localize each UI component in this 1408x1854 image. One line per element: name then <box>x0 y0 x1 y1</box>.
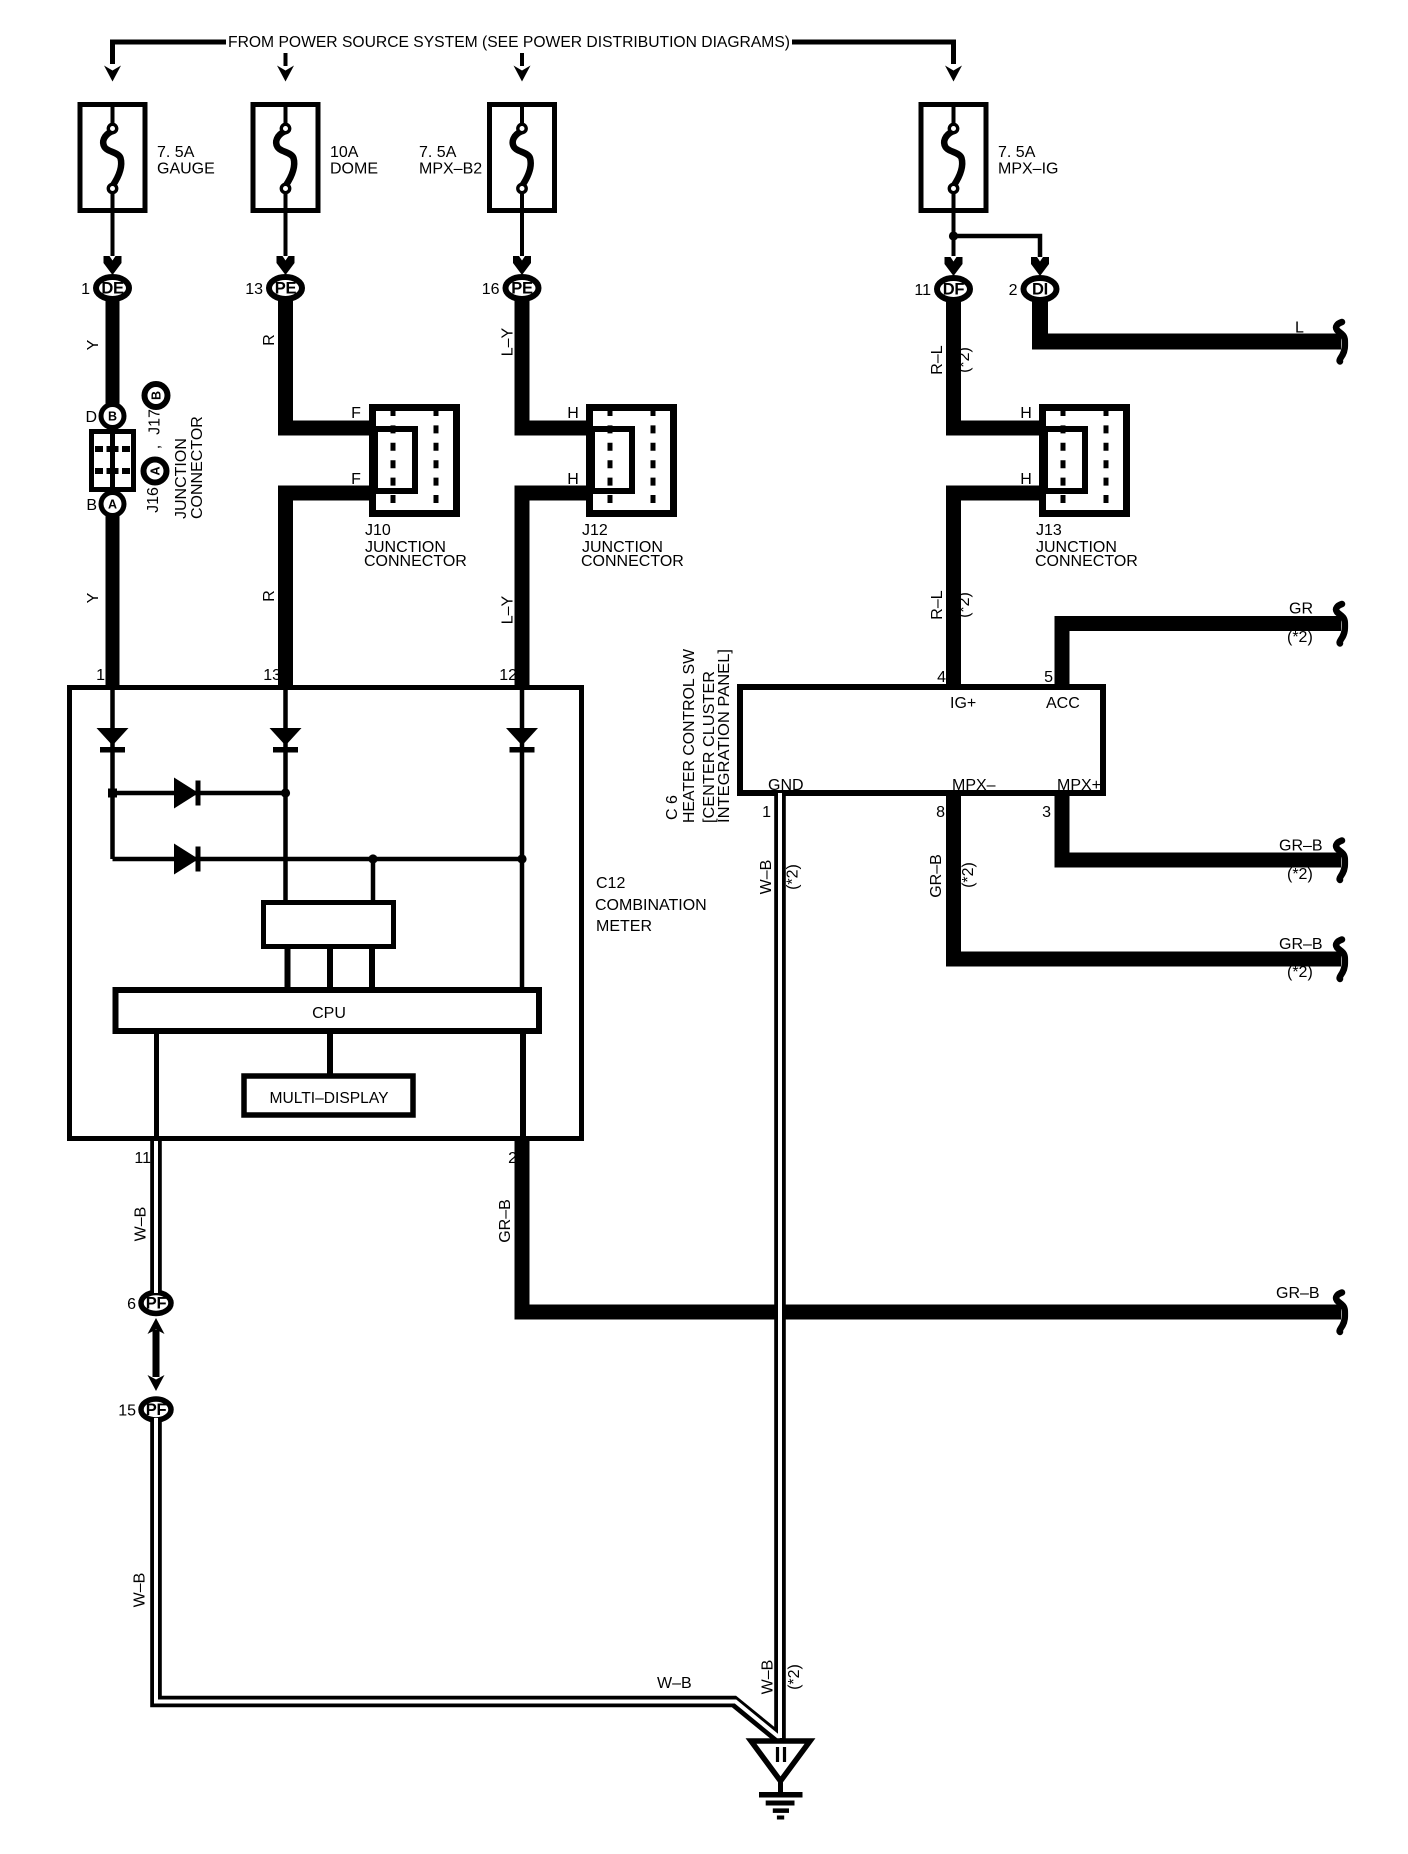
white core of W-B ground run <box>156 1418 780 1738</box>
svg-text:7. 5A: 7. 5A <box>157 144 195 161</box>
off-page continuation hook (GR) <box>1336 604 1345 644</box>
node row1/col1 <box>108 789 117 798</box>
svg-text:DOME: DOME <box>330 161 378 178</box>
wire R-L from J13 to C6 pin 4 (IG+) <box>954 493 1041 685</box>
wire label GR-B (*2) MPX- <box>1279 936 1323 981</box>
svg-text:J17: J17 <box>147 409 164 435</box>
svg-text:IG+: IG+ <box>950 695 976 712</box>
connector 2 DI (instrument panel) <box>1009 257 1057 300</box>
svg-text:DE: DE <box>101 280 124 298</box>
svg-text:6: 6 <box>127 1296 136 1313</box>
svg-text:15: 15 <box>118 1403 136 1420</box>
arrow into fuse F1 <box>104 66 121 82</box>
svg-text:PF: PF <box>146 1295 167 1313</box>
svg-text:J10: J10 <box>365 522 391 539</box>
svg-text:DI: DI <box>1032 281 1048 299</box>
svg-text:JUNCTION: JUNCTION <box>173 438 190 519</box>
wire Y from J16 to C12 pin 1 <box>106 516 120 685</box>
svg-text:(*2): (*2) <box>1287 866 1313 883</box>
connector 15 PF (on W-B) <box>118 1399 171 1420</box>
svg-text:MPX–B2: MPX–B2 <box>419 161 482 178</box>
power feed line from power source system <box>113 42 954 64</box>
svg-text:7. 5A: 7. 5A <box>998 144 1036 161</box>
connector 1 DE (instrument panel) <box>81 256 129 299</box>
svg-text:GR–B: GR–B <box>1279 936 1323 953</box>
svg-text:W–B: W–B <box>132 1573 149 1608</box>
svg-text:B: B <box>108 410 117 424</box>
power source label <box>226 31 792 53</box>
internal wire from pin 12 <box>520 688 525 988</box>
white core of W-B pin 11 wire <box>154 1141 158 1293</box>
svg-text:A: A <box>149 466 163 475</box>
svg-text:J12: J12 <box>582 522 608 539</box>
connector 13 PE (instrument panel) <box>245 256 302 299</box>
connector 6 PF (on W-B) <box>127 1293 171 1314</box>
svg-text:10A: 10A <box>330 144 359 161</box>
combination meter C12 box <box>70 688 582 1139</box>
svg-text:W–B: W–B <box>133 1207 150 1242</box>
J17 circled B legend <box>145 384 168 407</box>
svg-text:H: H <box>1020 471 1032 488</box>
wire R from J10 to C12 pin 13 <box>286 493 371 685</box>
svg-text:1: 1 <box>762 804 771 821</box>
svg-text:3: 3 <box>1042 804 1051 821</box>
svg-text:GND: GND <box>768 777 804 794</box>
connector 11 DF (instrument panel) <box>914 257 970 300</box>
fuse F1 7.5A GAUGE <box>80 104 145 256</box>
diode D1 (cathode down) <box>97 728 129 753</box>
svg-text:J16: J16 <box>145 487 162 513</box>
C12 label <box>595 875 707 935</box>
wire Y from DE to J16 <box>106 300 120 405</box>
svg-text:W–B: W–B <box>657 1675 692 1692</box>
svg-text:CONNECTOR: CONNECTOR <box>364 553 467 570</box>
svg-text:16: 16 <box>482 281 500 298</box>
wire from row2 node to interface box <box>371 859 376 900</box>
wire W-B from PF(15) to ground run <box>156 1420 780 1739</box>
svg-text:MULTI–DISPLAY: MULTI–DISPLAY <box>270 1090 389 1107</box>
off-page continuation hook (L) <box>1336 322 1345 362</box>
svg-text:H: H <box>567 471 579 488</box>
svg-text:L–Y: L–Y <box>500 595 517 624</box>
CPU box <box>116 990 540 1031</box>
svg-text:,: , <box>147 445 164 449</box>
svg-text:L: L <box>1295 320 1304 337</box>
svg-text:R–L: R–L <box>929 345 946 374</box>
mating arrows between PF connectors <box>148 1318 165 1391</box>
svg-text:COMBINATION: COMBINATION <box>595 897 707 914</box>
svg-text:H: H <box>1020 405 1032 422</box>
svg-text:HEATER CONTROL SW: HEATER CONTROL SW <box>681 648 698 823</box>
svg-text:C 6: C 6 <box>664 795 681 820</box>
svg-text:D: D <box>85 409 97 426</box>
svg-text:(*2): (*2) <box>786 1664 803 1690</box>
svg-text:MPX+: MPX+ <box>1057 777 1101 794</box>
svg-text:1: 1 <box>96 667 105 684</box>
svg-text:11: 11 <box>914 282 931 299</box>
svg-text:L–Y: L–Y <box>500 327 517 356</box>
off-page continuation hook (GR-B pin2) <box>1336 1293 1345 1333</box>
svg-text:GAUGE: GAUGE <box>157 161 215 178</box>
CPU to pin 11 wire <box>154 1031 159 1139</box>
interface to CPU wire 1 <box>285 947 291 988</box>
svg-text:MPX–IG: MPX–IG <box>998 161 1058 178</box>
svg-text:8: 8 <box>936 804 945 821</box>
svg-text:GR–B: GR–B <box>1276 1285 1320 1302</box>
diode D3 (cathode down) <box>506 728 538 753</box>
fuse F2 value label <box>330 144 378 178</box>
wire stub into fuse 3 <box>520 53 524 66</box>
svg-text:(*2): (*2) <box>1287 964 1313 981</box>
interface to CPU wire 2 <box>327 947 333 988</box>
off-page continuation hook (GR-B MPX+) <box>1336 841 1345 881</box>
J16 circled A legend <box>144 460 167 483</box>
C6 designation label <box>664 648 733 823</box>
fuse F4 7.5A MPX-IG <box>921 104 986 256</box>
internal bus row 1 <box>113 791 286 796</box>
svg-text:METER: METER <box>596 918 652 935</box>
svg-text:(*2): (*2) <box>1287 629 1313 646</box>
svg-text:INTEGRATION PANEL]: INTEGRATION PANEL] <box>716 649 733 823</box>
J16/J17 pin A circle (on wire) <box>86 493 124 516</box>
junction node row2/mid <box>368 854 377 863</box>
wire R from PE(13) down and into J10 <box>286 300 371 428</box>
wire label GR-B (*2) MPX+ <box>1279 838 1323 884</box>
svg-text:GR: GR <box>1289 601 1313 618</box>
svg-text:4: 4 <box>937 669 946 686</box>
svg-text:A: A <box>108 498 117 512</box>
diode D4 (cathode right) <box>174 778 201 809</box>
svg-text:13: 13 <box>245 281 263 298</box>
svg-text:12: 12 <box>499 667 517 684</box>
svg-text:(*2): (*2) <box>785 864 802 890</box>
svg-text:W–B: W–B <box>758 860 775 895</box>
svg-text:(*2): (*2) <box>956 592 973 618</box>
svg-text:J13: J13 <box>1036 522 1062 539</box>
arrow into fuse F3 <box>514 66 531 82</box>
wire W-B (*2) from C6 GND to ground <box>774 793 786 1741</box>
diode D5 (cathode right) <box>174 844 201 875</box>
svg-text:Y: Y <box>85 339 102 350</box>
off-page continuation hook (GR-B MPX-) <box>1336 940 1345 980</box>
internal wire from pin 1 <box>110 688 115 859</box>
svg-text:GR–B: GR–B <box>928 854 945 898</box>
CPU to display wire <box>327 1031 333 1075</box>
svg-text:2: 2 <box>1009 282 1018 299</box>
svg-text:5: 5 <box>1044 669 1053 686</box>
svg-text:F: F <box>351 471 361 488</box>
svg-text:PE: PE <box>275 280 297 298</box>
junction connector J12 <box>581 408 684 571</box>
wire L-Y from PE(16) down and into J12 <box>522 300 587 428</box>
internal wire from pin 13 <box>283 688 288 900</box>
interface to CPU wire 3 <box>369 947 375 988</box>
svg-text:MPX–: MPX– <box>952 777 996 794</box>
multi-display box <box>244 1076 413 1115</box>
svg-text:CONNECTOR: CONNECTOR <box>1035 553 1138 570</box>
interface box (unlabeled) <box>264 903 394 947</box>
svg-text:1: 1 <box>81 281 90 298</box>
white core of W-B (*2) GND wire <box>778 793 782 1738</box>
diode D2 (cathode down) <box>270 728 302 753</box>
svg-text:7. 5A: 7. 5A <box>419 144 457 161</box>
svg-text:C12: C12 <box>596 875 625 892</box>
svg-text:CONNECTOR: CONNECTOR <box>581 553 684 570</box>
svg-text:B: B <box>150 391 164 400</box>
svg-text:13: 13 <box>263 667 281 684</box>
svg-text:R–L: R–L <box>929 590 946 619</box>
svg-text:GR–B: GR–B <box>497 1199 514 1243</box>
junction connector J13 <box>1035 408 1138 571</box>
ground symbol <box>751 1741 810 1820</box>
fuse F2 10A DOME <box>253 104 318 256</box>
connector 16 PE (instrument panel) <box>482 256 539 299</box>
wire L-Y from J12 to C12 pin 12 <box>522 493 587 685</box>
wire GR-B from C6 pin 3 (MPX+) to off-page right <box>1062 795 1341 860</box>
svg-text:11: 11 <box>134 1150 151 1167</box>
internal bus row 2 <box>113 857 523 862</box>
svg-text:GR–B: GR–B <box>1279 838 1323 855</box>
wire L from DI to off-page right <box>1040 301 1341 342</box>
svg-text:ACC: ACC <box>1046 695 1080 712</box>
fuse F3 7.5A MPX-B2 <box>490 104 555 256</box>
fuse F4 value label <box>998 144 1058 178</box>
J16/J17 pin B circle (on wire) <box>85 405 124 428</box>
svg-text:PE: PE <box>511 280 533 298</box>
svg-text:DF: DF <box>943 281 965 299</box>
svg-text:H: H <box>567 405 579 422</box>
svg-text:F: F <box>351 405 361 422</box>
svg-text:2: 2 <box>508 1150 517 1167</box>
svg-text:CPU: CPU <box>312 1005 346 1022</box>
svg-text:(*2): (*2) <box>956 347 973 373</box>
svg-text:(*2): (*2) <box>960 862 977 888</box>
junction node below fuse F4 <box>949 231 958 240</box>
arrow into fuse F2 <box>277 66 294 82</box>
svg-text:R: R <box>261 590 278 602</box>
svg-text:PF: PF <box>146 1401 167 1419</box>
svg-text:B: B <box>86 497 97 514</box>
wire stub into fuse 2 <box>284 53 288 66</box>
wire GR-B from C6 pin 8 (MPX-) to off-page right <box>954 795 1342 959</box>
fuse F3 value label <box>419 144 482 178</box>
svg-text:Y: Y <box>85 592 102 603</box>
fuse F1 value label <box>157 144 215 178</box>
svg-text:FROM POWER SOURCE SYSTEM (SEE: FROM POWER SOURCE SYSTEM (SEE POWER DIST… <box>228 34 790 51</box>
svg-text:W–B: W–B <box>760 1660 777 1695</box>
wire GR from off-page to C6 pin 5 (ACC) <box>1062 624 1341 686</box>
junction connector J10 <box>364 408 467 571</box>
svg-text:CONNECTOR: CONNECTOR <box>189 416 206 519</box>
arrow into fuse F4 <box>945 66 962 82</box>
wire label GR (*2) <box>1287 601 1313 647</box>
wire W-B from C12 pin 11 to PF(6) <box>150 1141 162 1293</box>
J16/J17 JUNCTION CONNECTOR label <box>173 416 206 519</box>
wire GR-B from C12 pin 2 to off-page right <box>522 1141 1341 1312</box>
junction node row1/col2 <box>281 788 290 797</box>
junction connector J16/J17 box <box>92 429 134 492</box>
CPU to pin 2 wire <box>520 1031 526 1141</box>
wire R-L from DF down and into J13 <box>954 301 1041 428</box>
wire branch from fuse F4 to DI <box>954 236 1041 257</box>
heater control switch C6 box <box>740 687 1103 793</box>
svg-text:R: R <box>261 334 278 346</box>
junction node row2/col3 <box>517 854 526 863</box>
